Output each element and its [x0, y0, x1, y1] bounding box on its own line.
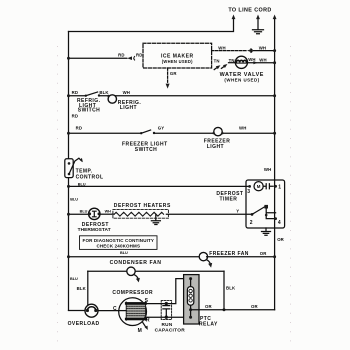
lamp DS1 refrig light: [108, 95, 116, 103]
svg-text:BLU: BLU: [120, 251, 128, 255]
overload protector OL1: [85, 304, 98, 317]
node pin 2: [251, 213, 254, 216]
svg-text:FREEZER FAN: FREEZER FAN: [209, 251, 249, 257]
wire TN connector arrows: [214, 66, 218, 69]
svg-text:RELAY: RELAY: [199, 322, 218, 328]
svg-text:M: M: [257, 184, 261, 189]
wire left bus to overload: [69, 310, 86, 312]
node pin 1: [274, 185, 277, 188]
lamp DS2 freezer light: [214, 127, 222, 135]
wire S to PTC relay: [146, 279, 191, 304]
ground defrost heaters: [151, 214, 160, 224]
PTC relay K1: [184, 275, 199, 324]
svg-text:TN: TN: [214, 59, 220, 64]
switch timer arm: [252, 207, 265, 215]
svg-text:BLK: BLK: [99, 90, 109, 95]
svg-text:WH: WH: [259, 57, 266, 62]
svg-text:BLU: BLU: [70, 277, 78, 281]
node junction right bus water valve: [273, 61, 276, 64]
wire water valve to right bus WH: [247, 62, 274, 64]
svg-text:RD: RD: [118, 53, 125, 58]
defrost timer TM1: [246, 180, 285, 228]
switch S1 refrig light switch: [85, 95, 87, 97]
svg-text:GR: GR: [170, 71, 177, 76]
svg-text:DEFROST HEATERS: DEFROST HEATERS: [114, 203, 171, 209]
compressor motor M1: [119, 298, 147, 326]
resistor defrost heaters: [114, 212, 163, 216]
wire freezer fan row: [69, 256, 200, 258]
node junction left bus refrig row: [67, 94, 70, 97]
svg-text:COMPRESSOR: COMPRESSOR: [112, 290, 153, 296]
wire heaters to defrost timer pin 2: [166, 213, 252, 215]
svg-text:C: C: [113, 306, 117, 312]
svg-text:(WHEN USED): (WHEN USED): [224, 78, 259, 83]
wire timer contact to bus: [266, 209, 275, 219]
svg-text:TN: TN: [229, 58, 235, 63]
wire left bus neutral: [68, 32, 70, 311]
svg-text:TO LINE CORD: TO LINE CORD: [228, 7, 271, 13]
node junction right bus WH: [273, 49, 276, 52]
svg-text:OVERLOAD: OVERLOAD: [68, 321, 100, 327]
svg-text:(WHEN USED): (WHEN USED): [162, 59, 193, 64]
svg-text:BLU: BLU: [70, 198, 78, 202]
svg-text:LIGHT: LIGHT: [120, 105, 137, 111]
wire top bus L1: [69, 18, 234, 32]
scan artifact dotted column left: [57, 46, 59, 348]
node junction right bus freezer light row: [273, 132, 276, 135]
wire thermostat to heaters: [100, 213, 114, 215]
wire refrig row to right bus WH: [99, 95, 275, 97]
solenoid water valve WV1: [229, 62, 236, 64]
svg-text:SWITCH: SWITCH: [135, 147, 157, 153]
wire temp control to defrost timer pin 3: [69, 185, 250, 187]
svg-text:CAPACITOR: CAPACITOR: [155, 327, 186, 333]
svg-text:WH: WH: [123, 90, 130, 95]
wire line-cord ground lead: [257, 18, 259, 30]
capacitor C1 run capacitor: [165, 302, 168, 305]
svg-text:RD: RD: [76, 125, 83, 130]
svg-text:OR: OR: [260, 251, 267, 256]
scan artifact dotted column right: [290, 46, 292, 348]
wire R to PTC relay: [145, 316, 191, 318]
wire water valve WH top: [212, 50, 247, 52]
svg-text:SWITCH: SWITCH: [78, 108, 100, 114]
svg-text:WH: WH: [248, 57, 255, 62]
node junction left bus freezer light row: [67, 132, 70, 135]
svg-text:2: 2: [250, 220, 253, 226]
wire condenser fan row: [88, 270, 224, 272]
thermostat S3 temp control: [65, 159, 73, 178]
node junction right bus refrig row: [273, 94, 276, 97]
svg-text:CONTROL: CONTROL: [76, 175, 104, 181]
node connector RD arrow: [127, 56, 132, 60]
ice maker IM1 (when used): [143, 43, 212, 68]
svg-text:WH: WH: [105, 209, 112, 213]
wire right bus L2: [274, 18, 276, 310]
motor freezer fan: [199, 252, 207, 260]
svg-text:BLU: BLU: [80, 210, 88, 214]
wire freezer fan to right bus OR: [207, 256, 275, 258]
svg-text:CONDENSER FAN: CONDENSER FAN: [110, 260, 162, 266]
svg-text:TIMER: TIMER: [220, 196, 238, 202]
contact timer cam: [263, 184, 273, 189]
svg-text:OR: OR: [251, 304, 258, 309]
svg-text:RD: RD: [72, 113, 79, 118]
svg-text:OR: OR: [277, 237, 284, 242]
svg-text:BLK: BLK: [226, 286, 236, 291]
node junction OR wire: [223, 308, 226, 311]
switch S2 freezer light switch: [140, 132, 142, 134]
svg-text:RD: RD: [72, 90, 79, 95]
node junction left bus timer feed: [67, 185, 70, 188]
svg-text:GY: GY: [158, 125, 165, 130]
node junction left bus heater row: [67, 213, 70, 216]
wire compressor C lead: [119, 310, 127, 312]
motor timer M: [254, 182, 263, 191]
svg-text:WH: WH: [239, 125, 246, 130]
svg-text:RUN: RUN: [162, 322, 173, 327]
node connector WH arrows: [247, 49, 252, 52]
motor condenser fan: [127, 267, 135, 275]
wire refrigerator light row: [69, 95, 86, 97]
node junction right bus freezer fan: [273, 255, 276, 258]
thermostat S4 defrost thermostat: [89, 208, 100, 219]
svg-text:WH: WH: [264, 167, 271, 172]
node pin 4: [274, 217, 277, 220]
node junction left bus freezer fan: [67, 255, 70, 258]
ground line-cord: [253, 30, 264, 34]
wire defrost heater row BLU: [69, 213, 90, 215]
wire GR ground lead of ice maker: [167, 68, 169, 84]
ground defrost timer: [262, 228, 271, 235]
wire condenser fan drop to OR bus: [223, 271, 225, 310]
svg-text:WH: WH: [259, 46, 266, 51]
node line-cord arrow L1: [232, 15, 236, 20]
svg-text:1: 1: [278, 184, 281, 190]
wire ice-maker feed RD: [69, 57, 127, 59]
wire overload to compressor C: [98, 310, 119, 312]
svg-text:LIGHT: LIGHT: [207, 144, 224, 150]
svg-text:R: R: [146, 317, 150, 323]
svg-text:CHECK 240KOHMS: CHECK 240KOHMS: [96, 243, 140, 248]
wire PTC to OR bus: [191, 309, 275, 311]
svg-text:BLK: BLK: [77, 286, 87, 291]
wire freezer light row to right bus: [154, 132, 275, 134]
svg-text:4: 4: [278, 220, 281, 226]
svg-text:Y: Y: [236, 208, 239, 213]
label diagnostic note box: [80, 236, 158, 250]
svg-text:3: 3: [247, 189, 250, 195]
node pin 3: [248, 185, 251, 188]
svg-text:WH: WH: [218, 46, 225, 51]
node junction left bus / ice maker: [67, 57, 70, 60]
svg-text:M: M: [138, 328, 143, 334]
svg-text:OR: OR: [205, 304, 212, 309]
svg-text:FOR DIAGNOSTIC CONTINUITY: FOR DIAGNOSTIC CONTINUITY: [83, 238, 155, 243]
wire BLK drop to overload: [87, 271, 89, 305]
wire freezer light row: [69, 132, 142, 134]
svg-text:THERMOSTAT: THERMOSTAT: [78, 227, 111, 233]
svg-text:RD: RD: [136, 53, 143, 58]
